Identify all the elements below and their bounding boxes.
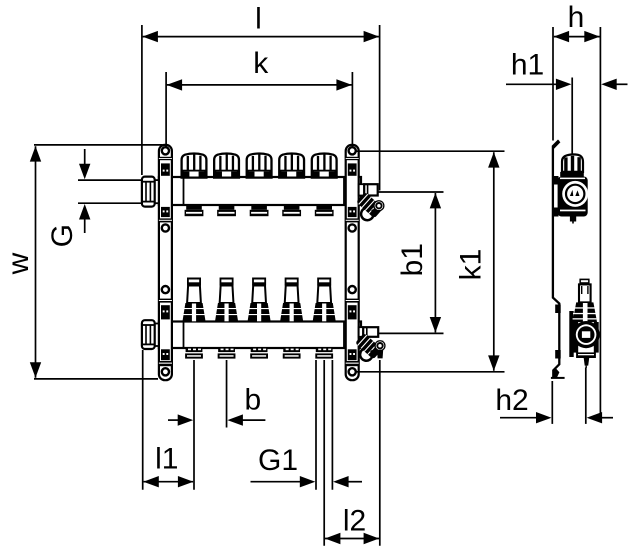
side view top valve <box>558 154 589 223</box>
dimension l1 <box>143 350 194 490</box>
valve cap 4 <box>279 154 304 178</box>
outlet nipple 4 <box>283 348 301 359</box>
dimension k1 <box>356 151 505 372</box>
dimension G1 <box>251 360 363 490</box>
outlet nipple 3 <box>250 348 268 359</box>
dimension k <box>166 47 352 148</box>
top fill/drain valve <box>356 192 384 220</box>
top supply thread stub G <box>154 180 161 203</box>
svg-text:k: k <box>253 47 269 80</box>
svg-text:h: h <box>568 1 585 34</box>
socket 5 <box>315 205 334 216</box>
dimension b <box>168 360 265 428</box>
dimension l <box>142 2 380 190</box>
dimension G <box>46 149 142 247</box>
outlet nipple 1 <box>185 348 203 359</box>
bottom elbow block <box>359 327 379 337</box>
left mounting bracket <box>159 145 172 380</box>
right mounting bracket <box>346 145 359 380</box>
flowmeter 3 <box>248 278 271 322</box>
dimension h <box>553 1 600 141</box>
manifold bottom bar <box>159 322 361 349</box>
flowmeter 4 <box>280 278 303 322</box>
svg-text:l1: l1 <box>155 443 178 476</box>
svg-text:k1: k1 <box>455 249 488 281</box>
svg-text:w: w <box>2 252 35 275</box>
bottom thread stub <box>154 324 161 347</box>
bottom union nut <box>142 320 155 349</box>
valve cap 5 <box>312 154 337 178</box>
valve cap 3 <box>247 154 272 178</box>
manifold top bar <box>159 177 361 205</box>
svg-text:G1: G1 <box>258 444 298 477</box>
socket 3 <box>250 205 269 216</box>
valve cap 2 <box>214 154 239 178</box>
side view bottom valve <box>569 279 599 368</box>
flowmeter 1 <box>182 278 205 322</box>
valve cap 1 <box>182 154 207 178</box>
flowmeter 5 <box>313 278 336 322</box>
dimension h2 <box>495 368 613 424</box>
outlet nipple 2 <box>218 348 236 359</box>
svg-text:h1: h1 <box>511 49 544 82</box>
dimension l2 <box>324 360 380 546</box>
svg-text:G: G <box>46 224 79 247</box>
top elbow block <box>359 184 378 195</box>
svg-text:b: b <box>244 384 261 417</box>
dimension w <box>2 145 163 379</box>
dimension b1 <box>378 192 444 333</box>
svg-text:h2: h2 <box>495 384 528 417</box>
socket 2 <box>217 205 236 216</box>
top union nut <box>142 177 155 207</box>
side view bracket plate <box>551 140 565 378</box>
socket 1 <box>185 205 204 216</box>
socket 4 <box>282 205 301 216</box>
flowmeter 2 <box>215 278 238 322</box>
side view wall line <box>599 27 601 418</box>
dimension h1 <box>506 49 628 155</box>
svg-text:b1: b1 <box>396 243 429 276</box>
outlet nipple 5 <box>315 348 333 359</box>
svg-text:l: l <box>255 2 262 35</box>
svg-text:l2: l2 <box>343 504 366 537</box>
bottom fill/drain valve <box>355 333 386 361</box>
